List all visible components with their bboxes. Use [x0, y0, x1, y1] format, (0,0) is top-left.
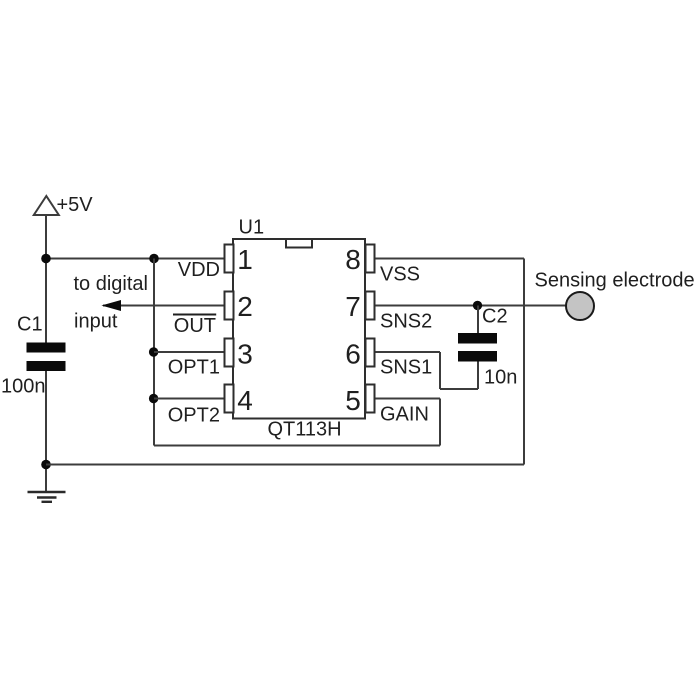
svg-text:7: 7 [345, 291, 361, 322]
svg-text:3: 3 [237, 339, 253, 370]
node: OPT1 junction [149, 347, 158, 356]
svg-text:100n: 100n [1, 376, 46, 398]
wire: OUT pin 2 to arrow [103, 305, 225, 307]
wire: SNS1 to C2 bottom [440, 388, 478, 390]
wire: SNS1 vertical down [439, 352, 441, 389]
label: to digital input [74, 273, 149, 332]
svg-text:GAIN: GAIN [380, 404, 429, 426]
wire: +5V down to C1 top [45, 215, 47, 343]
svg-text:OUT: OUT [174, 315, 216, 337]
ground [28, 492, 66, 502]
wire: SNS2 pin 7 to electrode [375, 305, 567, 307]
wire: C2 top lead [477, 306, 479, 335]
node: +5V / VDD junction [41, 254, 51, 264]
svg-text:1: 1 [237, 244, 253, 275]
wire: OPT1 pin 3 [154, 351, 225, 353]
svg-text:C1: C1 [17, 314, 43, 336]
sensing electrode [535, 270, 695, 321]
svg-text:U1: U1 [239, 217, 265, 239]
wire: C2 bottom lead [477, 361, 479, 389]
wire: left option rail vertical [153, 259, 155, 446]
node: ground junction [41, 460, 51, 470]
wire: ground rail horizontal [46, 464, 524, 466]
wire: OPT2 pin 4 [154, 398, 225, 400]
capacitor C1 [1, 314, 66, 398]
node: SNS2 / C2 junction [473, 301, 482, 310]
svg-text:OPT2: OPT2 [168, 404, 220, 426]
wire: SNS1 pin 6 [375, 351, 441, 353]
svg-text:VDD: VDD [178, 259, 220, 281]
wire: GAIN vertical [439, 399, 441, 446]
pin 7 box [366, 292, 375, 320]
pin 4 box [225, 385, 234, 413]
svg-text:C2: C2 [482, 305, 508, 327]
wire: VDD rail horizontal (+5V to pin 1) [46, 258, 225, 260]
svg-text:QT113H: QT113H [268, 419, 342, 441]
svg-text:6: 6 [345, 339, 361, 370]
svg-text:4: 4 [237, 385, 253, 416]
svg-text:SNS2: SNS2 [380, 311, 432, 333]
pin 2 box [225, 292, 234, 320]
capacitor C2 [458, 305, 517, 388]
pin 3 box [225, 339, 234, 367]
svg-text:+5V: +5V [57, 194, 94, 216]
pin 5 box [366, 385, 375, 413]
svg-text:to digital: to digital [74, 273, 149, 295]
wire: VSS pin 8 to right vertical [375, 258, 525, 260]
svg-text:5: 5 [345, 385, 361, 416]
svg-text:VSS: VSS [380, 264, 420, 286]
wire: bottom rail (option rail to GAIN) [154, 445, 440, 447]
node: VDD / option-rail junction [149, 254, 159, 264]
+5V supply symbol [34, 194, 94, 216]
svg-text:8: 8 [345, 244, 361, 275]
svg-text:2: 2 [237, 291, 253, 322]
wire: GAIN pin 5 [375, 398, 441, 400]
pin 8 box [366, 245, 375, 273]
svg-text:OPT1: OPT1 [168, 357, 220, 379]
wire: C1 bottom to ground [45, 371, 47, 492]
pin label OUT (active low) [173, 315, 216, 338]
svg-text:input: input [74, 310, 118, 332]
svg-text:SNS1: SNS1 [380, 357, 432, 379]
pin 1 box [225, 245, 234, 273]
svg-text:10n: 10n [484, 367, 517, 389]
notch [286, 240, 312, 248]
op IC U1 body [233, 217, 365, 441]
svg-text:Sensing electrode: Sensing electrode [535, 270, 695, 292]
node: OPT2 junction [149, 394, 158, 403]
pin 6 box [366, 339, 375, 367]
wire: right vertical (ground to VSS) [523, 259, 525, 465]
arrow: to digital input [101, 300, 121, 311]
